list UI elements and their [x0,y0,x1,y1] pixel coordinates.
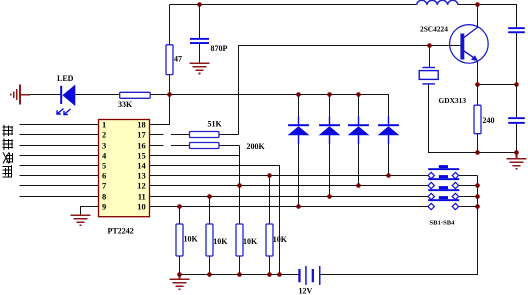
ground: pin 9 [71,215,91,225]
node: emitter row / caps [514,82,519,87]
wire: 10K resistor top stubs [180,176,270,225]
svg-text:PT2242: PT2242 [108,226,134,235]
inductor L1 [417,0,458,5]
node: diode D2 cathode tap [327,92,332,97]
node: cap C3 / ground [514,150,519,155]
svg-text:33K: 33K [118,100,133,109]
battery 12V [298,266,320,285]
diode D2 [319,117,341,145]
node: rail / 10K #2 [207,272,212,277]
node: rail / 10K #1 [177,272,182,277]
svg-text:8: 8 [102,191,106,201]
IC U1 PT2242 [99,120,150,217]
wire: 10K resistor bottom stubs [180,256,270,275]
svg-text:LED: LED [57,74,74,83]
node: rail / 10K #3 [237,272,242,277]
wire: bottom rail and battery return to switches [180,176,478,275]
svg-text:SB1-SB4: SB1-SB4 [430,220,456,227]
svg-text:10K: 10K [213,237,228,246]
svg-text:13: 13 [137,170,146,180]
node: switch column SB2 [475,183,480,188]
svg-text:10K: 10K [184,235,199,244]
resistor 10K #1 [176,224,183,256]
svg-text:2: 2 [102,129,106,139]
node: pin12 row / 10K #3 [237,183,242,188]
node: 240 bottom [475,150,480,155]
ground: below 870P [190,63,210,73]
node: switch column SB4 [475,204,480,209]
diode D3 [348,117,370,145]
wire: diode bottom stubs [299,135,389,206]
svg-text:3: 3 [102,140,106,150]
wire: left pins 1-8 [20,125,99,197]
wire: emitter row [478,84,517,86]
capacitor 870P [190,38,209,44]
label: vertical Chinese text 地址设定 (drawn strokes) [3,125,14,178]
svg-text:200K: 200K [247,142,266,151]
resistor 10K #2 [206,224,213,256]
switch SB2 [428,175,459,189]
ground: bottom rail [170,275,190,290]
svg-text:10K: 10K [243,237,258,246]
pin numbers left 1-9 [102,119,107,211]
wire: top supply rail [170,5,517,28]
resistor 47 [166,45,173,75]
ground: right column [507,153,527,169]
wire: LED row [30,95,389,125]
switch SB3 [428,186,459,200]
svg-text:GDX313: GDX313 [439,96,467,105]
node: switch column SB3 [475,194,480,199]
svg-text:18: 18 [137,119,146,129]
node: pin11 row / 10K #2 [207,194,212,199]
node: diode D3 cathode tap [356,92,361,97]
node: rail / pin14 return [277,272,282,277]
node: pin13 row / 10K #4 [267,173,272,178]
resistor 51K [190,132,220,138]
char 定 [3,165,13,177]
capacitor C2 (top right) [508,27,525,33]
char 址 [3,138,14,150]
svg-text:10: 10 [137,201,146,211]
node: emitter / 240 [475,82,480,87]
node: pin10 row / D1 [296,204,301,209]
resistor 10K #3 [236,224,243,256]
char 地 [3,125,14,137]
diode D1 [288,117,310,145]
wire: vertical from top rail through R47 to pin18 [150,5,170,125]
svg-text:870P: 870P [211,44,228,53]
capacitor C3 (lower right) [508,117,525,124]
wire: right capacitor column [516,33,518,152]
resistor 10K #4 [266,224,273,256]
wire: pin17 net to 51K and transistor base [150,46,461,135]
ground: left of LED [11,85,30,105]
pin numbers right 18-10 [137,119,146,211]
char 设 [3,152,13,163]
resistor 33K [120,92,151,98]
svg-text:16: 16 [137,140,146,150]
node: pin11 row / D2 [327,194,332,199]
svg-text:51K: 51K [208,119,223,128]
svg-text:240: 240 [483,116,495,125]
node: top rail / 870P [197,2,202,7]
node: pin13 row / D4 [386,173,391,178]
node: base / crystal [427,43,432,48]
svg-text:2SC4224: 2SC4224 [420,25,448,34]
wire: diode top stubs [299,95,359,125]
svg-text:5: 5 [102,160,106,170]
svg-text:15: 15 [137,150,146,160]
node: rail / 10K #4 [267,272,272,277]
node: pin10 row / 10K #1 [177,204,182,209]
node: pin12 row / D3 [356,183,361,188]
LED [57,86,74,115]
svg-text:10K: 10K [273,235,288,244]
resistor 240 [474,105,481,134]
wire: switch right stubs [458,176,477,207]
crystal GDX313 [419,67,438,85]
node: top rail / collector [475,2,480,7]
svg-text:47: 47 [174,54,182,63]
wire: pin16 net to 200K [150,145,240,147]
transistor Q1 2SC4224 [450,25,489,64]
wire: 870P stem [199,5,201,63]
svg-text:1: 1 [102,119,106,129]
switch SB4 [428,196,459,210]
wire: pin 9 to ground [81,207,99,215]
svg-text:14: 14 [137,160,146,170]
wire: collector / emitter / 240 column [477,5,479,153]
node: diode D1 cathode tap [296,92,301,97]
svg-text:12: 12 [137,180,146,190]
svg-text:12V: 12V [299,287,313,295]
wire: pin14 net to bottom rail [150,166,280,275]
svg-text:17: 17 [137,129,146,139]
switch SB1 [428,165,459,179]
diode D4 [378,117,400,145]
wire: crystal branch [429,46,517,153]
svg-text:11: 11 [138,191,146,201]
resistor 200K [190,143,220,149]
node: 33K / 47 junction [167,92,172,97]
svg-text:9: 9 [102,201,106,211]
wire: pin15 net [150,146,240,225]
svg-text:6: 6 [102,170,106,180]
wire: pin13-pin10 rows to switches [150,176,429,207]
